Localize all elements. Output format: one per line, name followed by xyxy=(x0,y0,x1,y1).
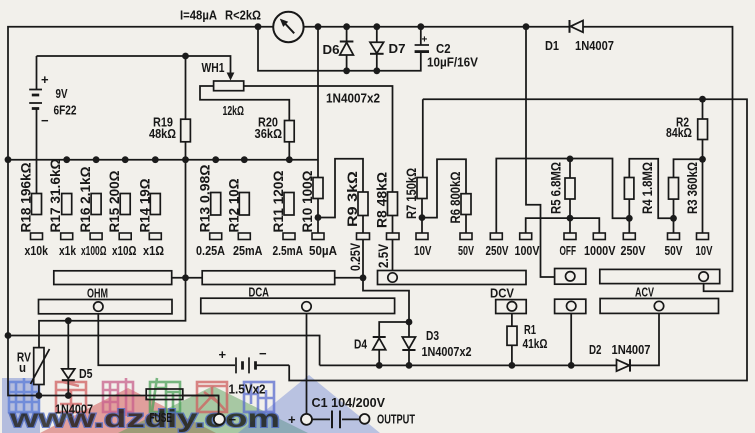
resistor R2 84k xyxy=(698,119,708,140)
resistor R8 48k xyxy=(388,192,398,216)
wire node line 100V-OFF-1000V y=218 xyxy=(526,218,600,233)
svg-text:D2: D2 xyxy=(589,343,602,357)
wire resistor bank rail y=160 xyxy=(8,159,318,161)
pad 0.25A xyxy=(210,233,222,240)
svg-text:DCV: DCV xyxy=(490,286,515,300)
capacitor C2 10uF xyxy=(415,45,429,52)
svg-text:9V: 9V xyxy=(56,87,69,101)
wire fuse to minus terminal handled in border path xyxy=(183,395,219,397)
switch wafer OHM upper xyxy=(54,271,172,285)
resistor R9 3k xyxy=(358,192,368,216)
junction node (215.7,159.7) xyxy=(212,156,219,163)
svg-text:−: − xyxy=(259,346,267,361)
pad OFF xyxy=(564,233,576,240)
svg-text:WH1: WH1 xyxy=(202,61,225,75)
wire R3 top line L1c to R2 bottom node xyxy=(674,159,703,177)
wire link R7 bottom to R6 top xyxy=(422,159,466,217)
svg-text:ACV: ACV xyxy=(635,285,654,299)
resistor R14 19 xyxy=(150,194,160,215)
wire from left border to common line B xyxy=(8,336,320,366)
potentiometer WH1 12k xyxy=(214,73,244,91)
svg-text:R14 19Ω: R14 19Ω xyxy=(137,178,152,232)
junction node (66.7,159.7) xyxy=(63,156,70,163)
pad 10V DCV xyxy=(416,233,428,240)
junction node (526,26.7) xyxy=(523,23,530,30)
wiper circle ACV upper xyxy=(699,272,708,281)
wire R10 bottom lead to pad xyxy=(317,199,319,234)
junction node (125.2,159.7) xyxy=(122,156,129,163)
wire R5 top lead xyxy=(569,159,571,178)
junction node (409,322) xyxy=(406,319,413,326)
terminal output xyxy=(360,414,370,424)
svg-text:R16 2.1kΩ: R16 2.1kΩ xyxy=(78,166,93,232)
wire R2 top lead xyxy=(702,99,704,119)
wire C1 leads xyxy=(312,418,360,420)
svg-text:48kΩ: 48kΩ xyxy=(149,127,176,141)
resistor R7 150k xyxy=(417,178,427,199)
wiper circle OHM lower xyxy=(94,302,103,311)
pad 10V ACV xyxy=(697,233,709,240)
junction node (673.5,218.3) xyxy=(670,215,677,222)
capacitor C1 104/200V xyxy=(332,411,340,429)
junction node (318,26.7) xyxy=(315,23,322,30)
junction node (702.5,159.3) xyxy=(699,156,706,163)
pad 50uA xyxy=(312,233,324,240)
junction node (96.1,159.7) xyxy=(93,156,100,163)
svg-text:D3: D3 xyxy=(426,329,439,343)
svg-text:84kΩ: 84kΩ xyxy=(666,126,692,140)
svg-text:OFF: OFF xyxy=(560,244,577,258)
wire R19 top lead xyxy=(185,56,187,119)
pad 100V xyxy=(520,233,532,240)
wire R2 bottom lead down to 10V ACV pad xyxy=(702,140,704,234)
wire 250V DCV riser and line L1a to R4 bottom xyxy=(496,159,629,234)
junction node (420.8,26.7) xyxy=(417,23,424,30)
wire RV bottom lead xyxy=(38,385,40,396)
pad 250V ACV xyxy=(623,233,635,240)
svg-text:R7 150kΩ: R7 150kΩ xyxy=(404,168,419,219)
junction node (8,335.5) xyxy=(5,332,12,339)
junction node (346.6,26.7) xyxy=(343,23,350,30)
svg-text:D4: D4 xyxy=(354,338,367,352)
junction node (185.5,159.7) xyxy=(182,156,189,163)
switch wafer OHM lower xyxy=(39,300,173,314)
svg-text:u: u xyxy=(19,361,26,375)
wire DCV wiper 2a to R1 xyxy=(511,311,513,326)
svg-text:www.dzdiy.com: www.dzdiy.com xyxy=(9,405,280,433)
svg-text:250V: 250V xyxy=(621,244,647,258)
svg-text:D5: D5 xyxy=(79,367,93,381)
svg-text:0.25V: 0.25V xyxy=(348,243,363,271)
svg-text:R18 196kΩ: R18 196kΩ xyxy=(19,162,34,232)
svg-text:D7: D7 xyxy=(389,42,406,56)
wire R7 bottom lead to pad xyxy=(421,199,423,234)
wire R5 bottom lead xyxy=(569,199,571,218)
svg-text:36kΩ: 36kΩ xyxy=(255,127,283,141)
svg-text:+: + xyxy=(41,72,49,87)
junction node (289.3,159.7) xyxy=(286,156,293,163)
junction node (629.3,218.3) xyxy=(626,215,633,222)
svg-text:R17 31.6kΩ: R17 31.6kΩ xyxy=(48,158,63,232)
wire R4 top line L1b to R3 bottom xyxy=(629,159,673,219)
svg-text:10V: 10V xyxy=(414,244,432,258)
svg-text:C2: C2 xyxy=(436,42,451,56)
svg-text:D6: D6 xyxy=(323,43,340,57)
pad x10 xyxy=(119,233,131,240)
resistor R13 0.98 xyxy=(211,193,221,216)
wire OHM wiper to 1.5V battery xyxy=(98,311,235,365)
diode D3 xyxy=(402,337,415,350)
svg-text:R10 100Ω: R10 100Ω xyxy=(300,170,315,232)
svg-text:x10Ω: x10Ω xyxy=(112,244,137,258)
svg-text:x1Ω: x1Ω xyxy=(143,244,164,258)
wire WH1 left lead down to R20 xyxy=(200,86,289,121)
wire battery 9V positive rail to WH1 wiper xyxy=(37,56,231,73)
svg-text:R8 48kΩ: R8 48kΩ xyxy=(375,172,390,228)
wire top rail / left border / bottom-left common wire to fuse and minus terminal xyxy=(8,27,570,414)
svg-text:−: − xyxy=(41,113,49,128)
junction node (68.3,395.5) xyxy=(65,392,72,399)
svg-text:1N4007: 1N4007 xyxy=(612,343,651,357)
wire battery 9V top lead xyxy=(36,56,38,90)
resistor R3 360k xyxy=(669,178,679,200)
wire C2 top lead xyxy=(420,27,422,45)
junction node (571.2,365.4) xyxy=(568,362,575,369)
wire top rail right of D1, inner right vertical down to ACV wiper xyxy=(583,27,733,292)
junction node (511.9,365.4) xyxy=(509,362,516,369)
diode D2 1N4007 xyxy=(617,359,631,371)
svg-text:DCA: DCA xyxy=(249,285,270,299)
resistor R20 36k xyxy=(285,121,295,142)
svg-text:+: + xyxy=(422,35,428,46)
wire common line B to D2 xyxy=(320,364,617,366)
svg-text:R1: R1 xyxy=(524,323,536,337)
pad x100 xyxy=(90,233,102,240)
resistor R18 196k xyxy=(32,194,42,215)
wire DCV wiper 2b down to line B xyxy=(570,311,572,366)
wire D6 leads xyxy=(346,27,348,71)
pad x1 xyxy=(149,233,161,240)
pad 25mA xyxy=(238,233,250,240)
svg-text:R6 800kΩ: R6 800kΩ xyxy=(448,171,463,223)
svg-text:2.5mA: 2.5mA xyxy=(273,244,304,258)
wiper circle DCV 2a xyxy=(507,302,516,311)
svg-text:OUTPUT: OUTPUT xyxy=(377,413,415,427)
wire DCA wiper to plus output terminal xyxy=(306,311,308,414)
svg-text:50µA: 50µA xyxy=(309,244,337,258)
pad 0.25V xyxy=(357,233,370,240)
svg-text:R9 3kΩ: R9 3kΩ xyxy=(345,171,360,227)
wire OFF pad riser xyxy=(569,218,571,233)
terminal minus xyxy=(214,414,225,425)
wire R8 bottom lead through pad to DCV wiper xyxy=(392,216,394,273)
wire D2 cathode to ACV lower wiper xyxy=(630,311,659,366)
switch wafer DCA lower xyxy=(201,298,395,313)
resistor R6 800k xyxy=(461,194,471,215)
pad 50V DCV xyxy=(460,233,472,240)
switch wafer DCV 2b xyxy=(555,299,586,313)
pad 2.5mA xyxy=(283,233,295,240)
wiper circle DCA lower xyxy=(302,302,311,311)
svg-text:25mA: 25mA xyxy=(233,244,263,258)
wire D3 leads xyxy=(408,322,410,365)
junction node (409,365.4) xyxy=(406,362,413,369)
svg-text:R12 10Ω: R12 10Ω xyxy=(226,178,241,232)
wire switch bus DCA right to R9 node and down to D3 D4 xyxy=(335,278,409,322)
wire link R10 bottom to R9 top xyxy=(318,159,363,218)
svg-text:R11 120Ω: R11 120Ω xyxy=(271,170,286,232)
wire lower rail y=71 from meter dot to C2 xyxy=(258,27,421,71)
resistor R1 41k xyxy=(507,326,517,345)
svg-text:100V: 100V xyxy=(515,244,541,258)
wire D5 top lead xyxy=(67,321,69,369)
switch wafer DCV 2a xyxy=(496,300,527,314)
meter M 48uA xyxy=(273,12,303,42)
diode D5 1N4007 xyxy=(62,369,75,380)
switch wafer ACV upper xyxy=(600,269,720,283)
svg-text:R<2kΩ: R<2kΩ xyxy=(225,8,261,23)
wiper circle OFF xyxy=(566,272,575,281)
diode D6 xyxy=(340,42,354,56)
junction node (38.9,395.5) xyxy=(36,392,43,399)
pad 250V DCV xyxy=(490,233,502,240)
terminal plus output xyxy=(301,414,312,425)
svg-text:R15 200Ω: R15 200Ω xyxy=(107,170,122,232)
wire D4 bottom lead xyxy=(378,350,380,366)
svg-text:50V: 50V xyxy=(665,244,684,258)
junction node (376.8,70.8) xyxy=(373,67,380,74)
junction node (185.5,277.8) xyxy=(182,274,189,281)
junction node (8,159.7) xyxy=(5,156,12,163)
svg-text:0.25A: 0.25A xyxy=(196,244,225,258)
switch wafer ACV lower xyxy=(600,299,718,314)
svg-text:I=48µA: I=48µA xyxy=(180,8,218,23)
junction node (376.8,26.7) xyxy=(373,23,380,30)
svg-text:+: + xyxy=(219,347,227,362)
diode D1 1N4007 xyxy=(570,20,584,33)
junction node (346.6,70.8) xyxy=(343,67,350,74)
svg-text:R13 0.98Ω: R13 0.98Ω xyxy=(198,164,213,232)
resistor R12 10 xyxy=(239,193,249,216)
svg-text:C1 104/200V: C1 104/200V xyxy=(312,396,386,410)
svg-text:x10k: x10k xyxy=(25,244,49,258)
resistor R4 1.8M xyxy=(624,178,634,200)
svg-text:1N4007: 1N4007 xyxy=(55,403,93,417)
pad 1000V xyxy=(593,233,605,240)
pad 2.5V xyxy=(387,233,400,240)
svg-text:−: − xyxy=(229,412,237,427)
resistor R19 48k xyxy=(181,119,191,142)
wire R6 bottom lead xyxy=(465,215,467,234)
svg-text:1N4007: 1N4007 xyxy=(575,39,614,53)
wire R9 bottom lead through pad to DCA bus xyxy=(362,216,364,278)
svg-text:2.5V: 2.5V xyxy=(376,244,391,268)
wiper circle ACV lower xyxy=(654,301,663,310)
junction node (702.5,99.2) xyxy=(699,96,706,103)
wire battery 9V negative lead down to R18 xyxy=(36,109,38,194)
svg-text:6F22: 6F22 xyxy=(54,103,77,117)
svg-text:1N4007x2: 1N4007x2 xyxy=(422,345,472,359)
svg-text:FUSE: FUSE xyxy=(150,410,173,425)
junction node (68.3,320.7) xyxy=(65,317,72,324)
wire D7 leads xyxy=(376,27,378,71)
junction node (570,158.9) xyxy=(567,156,574,163)
battery B2 1.5Vx2 xyxy=(236,357,256,373)
wire R7 top lead from R2 line xyxy=(422,99,424,177)
wiper circle DCV upper xyxy=(388,273,397,282)
svg-text:D1: D1 xyxy=(545,39,559,53)
resistor R15 200 xyxy=(120,194,130,215)
wire D4 top jog xyxy=(379,322,409,337)
svg-text:50V: 50V xyxy=(458,244,474,258)
wire switch bus OHM to DCA xyxy=(172,277,203,279)
wire common column from rail through bus to line T xyxy=(39,160,186,348)
svg-text:1N4007x2: 1N4007x2 xyxy=(326,92,380,106)
wire R2 line y=99 / right border / bottom border to 1.5V battery minus xyxy=(289,99,747,380)
switch wafer DCA upper xyxy=(202,271,335,285)
pad x10k xyxy=(31,233,43,240)
junction node (422,217.6) xyxy=(419,214,426,221)
svg-text:1000V: 1000V xyxy=(584,244,616,258)
svg-text:R5 6.8MΩ: R5 6.8MΩ xyxy=(549,162,564,214)
svg-text:12kΩ: 12kΩ xyxy=(223,104,245,118)
wire D5 bottom lead xyxy=(67,380,69,395)
wire R4 bottom lead to pad xyxy=(628,199,630,233)
svg-text:250V: 250V xyxy=(486,244,510,258)
junction node (244.3,159.7) xyxy=(241,156,248,163)
varistor RV xyxy=(31,348,50,385)
junction node (258,26.7) xyxy=(255,23,262,30)
svg-text:10V: 10V xyxy=(696,244,713,258)
switch wafer DCV upper xyxy=(378,271,527,285)
wire R10 column from top rail through rail xyxy=(317,27,319,178)
svg-text:41kΩ: 41kΩ xyxy=(523,337,548,351)
junction node (363,277.8) xyxy=(360,274,367,281)
resistor R17 31.6k xyxy=(62,194,72,215)
junction node (570,218.1) xyxy=(567,215,574,222)
svg-text:x100Ω: x100Ω xyxy=(81,244,107,258)
wire R19 bottom lead to rail xyxy=(185,142,187,160)
svg-text:+: + xyxy=(288,412,296,427)
resistor R5 6.8M xyxy=(565,178,575,199)
resistor R10 100 xyxy=(313,178,323,199)
svg-text:1.5Vx2: 1.5Vx2 xyxy=(229,383,266,397)
pad x1k xyxy=(61,233,73,240)
wire W1 from top rail to OFF switch box xyxy=(526,27,555,277)
switch wafer OFF box xyxy=(555,269,586,285)
svg-text:OHM: OHM xyxy=(87,287,108,301)
wiper circle DCV 2b xyxy=(567,301,576,310)
diode D4 xyxy=(373,337,386,350)
junction node (185.5,56) xyxy=(182,53,189,60)
svg-text:x1k: x1k xyxy=(59,244,76,258)
wire R20 bottom lead to rail xyxy=(288,142,290,160)
svg-text:R3 360kΩ: R3 360kΩ xyxy=(685,162,700,214)
fuse xyxy=(146,389,183,400)
junction node (379.2,365.4) xyxy=(376,362,383,369)
battery B1 9V 6F22 xyxy=(29,90,42,109)
svg-text:R4 1.8MΩ: R4 1.8MΩ xyxy=(640,162,655,214)
junction node (318,217.5) xyxy=(315,214,322,221)
resistor R11 120 xyxy=(284,193,294,216)
diode D7 xyxy=(370,42,384,54)
junction node (155.3,159.7) xyxy=(152,156,159,163)
wire 1.5V battery negative to bottom border xyxy=(257,364,290,366)
pad 50V ACV xyxy=(668,233,680,240)
resistor R16 2.1k xyxy=(91,194,101,215)
wire R1 bottom lead xyxy=(511,345,513,365)
svg-text:10µF/16V: 10µF/16V xyxy=(427,56,479,70)
wire R3 bottom lead to pad xyxy=(673,199,675,233)
wire WH1 right lead to R8 top xyxy=(244,86,393,192)
